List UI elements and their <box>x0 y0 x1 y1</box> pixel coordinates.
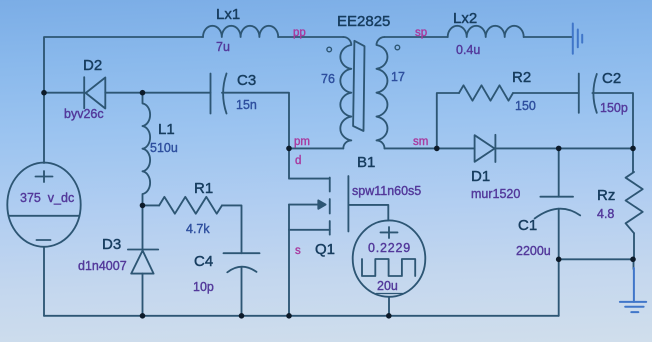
wire D3 to bottom rail <box>142 274 144 316</box>
wire Rz to ground <box>633 259 635 269</box>
mosfet Q1 spw11n60s5 <box>289 148 348 234</box>
ground (rotated) at Lx2 <box>573 24 582 54</box>
resistor R2 150 <box>459 85 513 100</box>
wire D2 to C3 <box>105 92 210 94</box>
wire C1 branch <box>558 148 560 196</box>
svg-text:Lx1: Lx1 <box>216 6 240 23</box>
capacitor C3 15n <box>211 74 227 114</box>
wire C4 to bottom rail <box>241 267 243 316</box>
wire pulse source to bottom rail <box>388 297 390 316</box>
svg-text:10p: 10p <box>193 280 214 294</box>
source V1 375 v_dc <box>7 163 80 247</box>
wire C3 to pm node <box>222 93 289 149</box>
pulse source V2 <box>353 220 426 296</box>
svg-text:20u: 20u <box>377 279 398 293</box>
svg-text:76: 76 <box>321 72 335 86</box>
wire C1 to bottom node <box>558 209 560 316</box>
wire left rail bottom <box>43 247 45 316</box>
svg-text:d1n4007: d1n4007 <box>78 259 127 273</box>
svg-text:L1: L1 <box>158 121 175 138</box>
capacitor C4 10p <box>224 253 260 272</box>
transformer B1 core <box>353 41 364 131</box>
wire Q1 source to bottom rail <box>288 230 290 316</box>
wire pm <box>289 147 343 149</box>
svg-text:R1: R1 <box>194 180 213 197</box>
wire R1 to C4 <box>222 205 242 253</box>
wire D2 row <box>44 92 85 94</box>
svg-text:sm: sm <box>413 136 428 148</box>
wire L1 to D3 <box>142 205 144 249</box>
transformer B1 polarity dot secondary <box>395 45 400 50</box>
svg-text:C3: C3 <box>237 72 256 89</box>
wire R1 left <box>143 204 160 206</box>
wire C2 to right rail <box>592 93 633 148</box>
svg-text:EE2825: EE2825 <box>337 13 390 30</box>
svg-text:spw11n60s5: spw11n60s5 <box>352 184 421 198</box>
inductor L1 510u <box>143 93 151 206</box>
wire D1 to right <box>495 147 633 149</box>
svg-text:Q1: Q1 <box>315 241 335 258</box>
svg-text:150: 150 <box>515 99 536 113</box>
svg-text:4.8: 4.8 <box>597 207 614 221</box>
wire top-left rail <box>44 37 203 163</box>
svg-text:mur1520: mur1520 <box>471 187 520 201</box>
svg-text:Rz: Rz <box>597 187 615 204</box>
wire Q1 gate to pulse source <box>348 205 388 221</box>
svg-text:4.7k: 4.7k <box>186 222 210 236</box>
wire bottom output node <box>559 258 633 260</box>
svg-text:0.4u: 0.4u <box>456 43 480 57</box>
svg-text:375 v_dc: 375 v_dc <box>20 191 74 205</box>
svg-text:15n: 15n <box>236 98 257 112</box>
svg-text:D2: D2 <box>83 57 102 74</box>
svg-text:C4: C4 <box>194 253 213 270</box>
resistor Rz 4.8 <box>626 148 643 259</box>
svg-text:sp: sp <box>415 27 427 39</box>
wire Lx2 to ground <box>524 36 572 38</box>
svg-text:C2: C2 <box>602 70 621 87</box>
transformer B1 secondary winding <box>377 37 388 148</box>
svg-text:Lx2: Lx2 <box>453 10 477 27</box>
wire pp <box>278 36 343 38</box>
svg-text:byv26c: byv26c <box>64 107 104 121</box>
diode D1 mur1520 <box>475 135 496 162</box>
svg-text:s: s <box>295 245 301 257</box>
transformer B1 EE2825 primary winding <box>340 37 351 148</box>
svg-text:D1: D1 <box>471 168 490 185</box>
inductor Lx1 <box>203 26 278 37</box>
svg-text:17: 17 <box>391 70 405 84</box>
inductor Lx2 <box>448 26 524 37</box>
svg-text:C1: C1 <box>518 217 537 234</box>
svg-text:pm: pm <box>294 136 310 148</box>
diode D2 byv26c <box>84 77 105 108</box>
wire sp <box>385 36 448 38</box>
svg-text:510u: 510u <box>150 141 178 155</box>
ground at output <box>620 268 646 312</box>
wire R2 branch up <box>437 93 459 148</box>
svg-text:7u: 7u <box>216 40 230 54</box>
capacitor C1 2200u <box>535 197 581 219</box>
svg-text:0.2229: 0.2229 <box>368 241 411 255</box>
svg-text:d: d <box>295 155 301 167</box>
diode D3 d1n4007 <box>128 250 158 274</box>
svg-text:2200u: 2200u <box>516 244 551 258</box>
transformer B1 polarity dot primary <box>327 47 332 52</box>
wire R2 to C2 <box>513 92 579 94</box>
capacitor C2 150p <box>579 74 597 113</box>
svg-text:pp: pp <box>293 27 306 39</box>
svg-text:R2: R2 <box>512 69 531 86</box>
wire bottom rail <box>44 315 559 317</box>
wire sm <box>385 147 475 149</box>
svg-text:D3: D3 <box>102 236 121 253</box>
svg-text:B1: B1 <box>357 154 375 171</box>
resistor R1 4.7k <box>159 197 222 214</box>
svg-text:150p: 150p <box>600 101 628 115</box>
